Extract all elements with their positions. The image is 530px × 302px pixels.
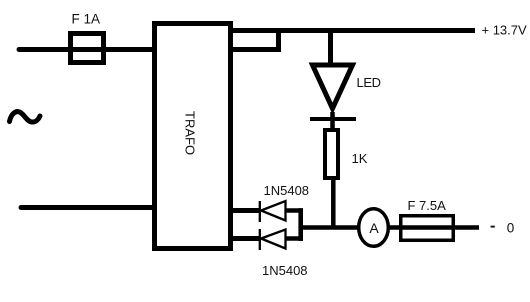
svg-text:F 7.5A: F 7.5A — [408, 198, 447, 213]
diode D2 cathode bar — [259, 229, 261, 250]
diode D1 triangle — [261, 201, 286, 221]
wire: diode D1 to rectifier junction bar — [286, 208, 304, 213]
wire: rectifier junction vertical bar — [298, 208, 303, 241]
svg-text:1N5408: 1N5408 — [262, 263, 308, 278]
wire: +13.7V top rail from transformer secondary to output terminal — [228, 28, 475, 33]
wire: transformer secondary to diode D1 — [229, 208, 260, 213]
diode D1 cathode bar — [259, 201, 261, 222]
wire: transformer secondary to diode D2 — [229, 236, 260, 241]
svg-text:1K: 1K — [352, 151, 368, 166]
label minus terminal — [491, 226, 495, 228]
svg-text:+ 13.7V: + 13.7V — [482, 23, 528, 38]
svg-text:LED: LED — [357, 75, 381, 90]
LED D3 cathode bar — [310, 117, 356, 121]
resistor R1 body — [325, 130, 338, 178]
wire: diode D2 to rectifier junction bar — [286, 236, 304, 241]
diode D2 triangle — [261, 230, 286, 249]
wire: secondary top tap vertical segment joining top rail — [276, 28, 281, 52]
svg-text:F 1A: F 1A — [72, 11, 101, 26]
LED D3 triangle — [313, 65, 353, 109]
svg-text:0: 0 — [507, 221, 515, 236]
ammeter A1 body — [359, 209, 389, 247]
wire: secondary top tap horizontal segment — [228, 47, 281, 52]
wire: top rail down to LED anode — [328, 31, 333, 64]
svg-text:A: A — [369, 220, 379, 236]
wire: output node through ammeter and fuse F2 to 0V terminal — [300, 225, 479, 230]
wire: AC neutral input from left to transformer primary — [21, 205, 154, 210]
wire: resistor R1 down to output node — [331, 178, 336, 229]
fuse F2 body — [401, 216, 454, 241]
wire: AC live input from left through fuse F1 to transformer primary — [19, 47, 154, 52]
svg-text:TRAFO: TRAFO — [183, 111, 198, 155]
svg-text:1N5408: 1N5408 — [264, 183, 310, 198]
AC source tilde symbol — [10, 112, 41, 122]
wire: LED cathode to resistor R1 — [330, 112, 335, 131]
fuse F1 body — [71, 34, 104, 63]
transformer T1 body — [155, 24, 231, 249]
